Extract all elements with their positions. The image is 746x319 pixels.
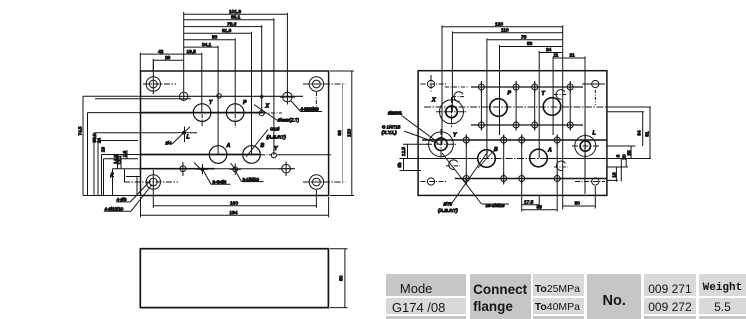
dim 29 — [153, 55, 183, 61]
table cell To40MPa — [533, 298, 584, 315]
svg-text:30: 30 — [575, 201, 581, 207]
svg-text:13: 13 — [611, 172, 616, 178]
svg-text:24: 24 — [546, 47, 552, 53]
svg-text:160: 160 — [230, 200, 238, 206]
M10 valve hole top-left — [180, 92, 188, 100]
dim 18.5 — [184, 49, 202, 55]
port A left view — [209, 146, 227, 164]
small node point top — [261, 96, 263, 98]
label Omax ZT — [254, 105, 300, 123]
M8 row1 — [476, 82, 576, 93]
port X left view — [259, 111, 264, 116]
dim v 1.6 — [122, 150, 127, 159]
row ext bottom edge — [83, 195, 141, 197]
row ext 140.5 — [98, 140, 138, 142]
row line r3 — [422, 140, 635, 146]
bottom dim 160 — [153, 200, 316, 206]
dim 24 r — [539, 47, 563, 53]
svg-text:12.7: 12.7 — [117, 155, 122, 164]
extension col A r — [538, 51, 540, 158]
svg-text:Y: Y — [453, 133, 457, 139]
gauge point L — [172, 114, 235, 144]
row line r2 — [471, 124, 583, 126]
table cell bottom strip c3 — [533, 316, 584, 319]
svg-text:(A.B.P.T): (A.B.P.T) — [438, 208, 458, 214]
svg-text:A: A — [547, 148, 552, 154]
table cell bottom strip c5 — [644, 316, 696, 319]
table cell 009 271 — [644, 274, 696, 295]
table cell 5.5 — [699, 298, 746, 315]
svg-text:50: 50 — [212, 35, 218, 41]
dim v 34.5 — [104, 159, 115, 196]
dim v 40.5 — [101, 155, 103, 196]
svg-text:T: T — [209, 100, 213, 106]
extension col Y r — [441, 25, 443, 144]
svg-text:G1Ø: G1Ø — [270, 127, 280, 132]
side view thickness dim 50 — [330, 249, 348, 308]
corner hole top-left right view — [421, 75, 447, 93]
right dim 96 — [337, 84, 343, 182]
bolt hole bottom-left — [124, 170, 178, 208]
label 4-O9 — [116, 181, 150, 202]
table cell bottom strip c1 — [386, 316, 467, 319]
dim v13 r — [611, 167, 616, 182]
svg-text:Ø4: Ø4 — [166, 141, 173, 146]
label O26 counterbore — [388, 111, 438, 143]
bottom dim 30 r — [563, 186, 596, 209]
bolt hole top-left — [143, 61, 176, 95]
port T right view — [543, 98, 561, 116]
svg-text:12.5: 12.5 — [401, 147, 406, 156]
dim 88.1 — [184, 15, 274, 21]
svg-text:Ø75: Ø75 — [444, 202, 453, 207]
table cell To25MPa — [533, 274, 584, 295]
svg-text:78: 78 — [521, 34, 527, 40]
table cell No. — [587, 274, 641, 319]
bottom dim 17.5 r — [522, 196, 540, 212]
dim 66.5 — [184, 28, 252, 34]
row line r1 — [445, 86, 583, 88]
thread hole near X — [452, 92, 465, 102]
bottom dim 184 — [141, 197, 329, 217]
svg-text:24: 24 — [96, 138, 101, 144]
svg-text:11: 11 — [554, 53, 559, 59]
svg-text:T: T — [542, 91, 546, 97]
port A right view — [530, 149, 548, 167]
dim v 7 — [126, 177, 141, 196]
svg-text:L: L — [593, 131, 596, 137]
dim 78 r — [487, 34, 563, 40]
dim v 12.7 — [117, 155, 122, 169]
extension col plate edge — [139, 53, 141, 71]
svg-text:Ømax(Z.T): Ømax(Z.T) — [278, 118, 300, 123]
svg-text:9b: 9b — [397, 162, 402, 168]
svg-text:2-1/8l19: 2-1/8l19 — [243, 177, 260, 182]
pilot port Y right view — [426, 129, 457, 160]
svg-text:29: 29 — [165, 55, 171, 61]
table cell 009 272 — [644, 298, 696, 315]
port letters left view — [187, 100, 279, 152]
svg-text:18.5: 18.5 — [187, 49, 197, 55]
table cell Weight — [699, 274, 746, 295]
port T left view — [193, 104, 211, 122]
M8 row2 — [476, 120, 576, 131]
row line top holes — [83, 96, 303, 99]
port letters right view — [431, 91, 596, 154]
bottom dim 35 r — [522, 184, 558, 212]
row line L — [94, 132, 197, 134]
right dim chain right view — [607, 107, 650, 182]
dim 42 — [140, 49, 183, 55]
table cell Mode header — [386, 274, 467, 295]
svg-text:4-Ø9: 4-Ø9 — [117, 197, 128, 202]
port P right view — [490, 99, 508, 117]
hole column centerlines rows12 — [481, 81, 570, 131]
svg-text:4-M10l18: 4-M10l18 — [301, 106, 320, 111]
extension col B r — [486, 38, 488, 158]
svg-text:2-G4l8: 2-G4l8 — [213, 180, 227, 185]
extension col T r — [552, 57, 554, 136]
port Y left view — [271, 153, 276, 158]
right dim 120 — [330, 71, 354, 196]
pilot port L right view — [572, 133, 599, 159]
extension col datum — [183, 12, 185, 100]
dim v8 r — [616, 154, 622, 181]
svg-text:51: 51 — [645, 131, 650, 137]
svg-text:74.5: 74.5 — [78, 126, 83, 135]
svg-text:X: X — [431, 98, 436, 104]
dim v 61.6 — [94, 133, 101, 196]
row line r4 — [455, 179, 618, 181]
extension col B — [251, 32, 253, 155]
svg-text:B: B — [494, 147, 498, 153]
top dim chain left view — [140, 9, 287, 156]
table cell Connect flange — [470, 274, 531, 319]
svg-text:17.5: 17.5 — [524, 199, 534, 205]
svg-text:61.9: 61.9 — [222, 28, 232, 34]
extension col datum r — [562, 25, 564, 209]
extension col P — [234, 38, 236, 112]
svg-text:(X.Y.L): (X.Y.L) — [382, 130, 397, 136]
label O25 ABPT bottom — [438, 152, 488, 215]
M10 valve hole bottom-right — [279, 162, 293, 177]
svg-text:Y: Y — [274, 146, 278, 152]
svg-text:L: L — [187, 134, 190, 140]
extension col X — [261, 25, 263, 113]
plate outline right view — [418, 71, 607, 196]
row ext thread row — [607, 166, 628, 168]
row line A B — [102, 154, 332, 156]
small pin hole top — [217, 94, 222, 99]
svg-text:120: 120 — [495, 21, 503, 27]
extension col Y — [273, 18, 275, 155]
dim 120 r — [442, 21, 563, 27]
svg-text:8: 8 — [616, 154, 621, 157]
M10 valve hole top-right — [280, 90, 295, 105]
extension col T — [201, 53, 203, 113]
svg-text:(A.B.P.T): (A.B.P.T) — [267, 134, 287, 139]
svg-text:76.6: 76.6 — [227, 21, 237, 27]
label 10-M8 depth19 — [442, 153, 509, 208]
extension col bolt left — [152, 59, 154, 71]
extension col A — [217, 46, 219, 155]
bolt hole top-right — [303, 77, 346, 110]
dim v 12.7b — [124, 169, 126, 182]
dim v34 r — [607, 112, 644, 146]
left small dim right view — [397, 144, 478, 170]
label 4-O15/20 — [104, 185, 152, 212]
dim v 81.4 — [88, 113, 98, 196]
hole column centerlines rows34 — [466, 135, 557, 196]
side view plate rectangle — [140, 249, 328, 308]
top dim chain right view — [442, 21, 585, 209]
svg-text:34: 34 — [637, 130, 642, 136]
corner hole top-right right view — [582, 80, 605, 105]
label G1/4 XYL — [382, 124, 439, 143]
dim v 97.4 — [78, 96, 84, 195]
extension col P r — [499, 45, 501, 135]
thread hole near T — [554, 90, 567, 100]
port B right view — [478, 147, 497, 168]
table cell G174/08 — [386, 298, 467, 315]
extension col X r — [451, 31, 453, 112]
label 4-M10 depth18 — [291, 101, 322, 112]
label G1/8 ABPT — [246, 127, 286, 158]
dim v 14.3 — [113, 155, 118, 169]
dim 63 r — [500, 41, 563, 47]
svg-text:101.6: 101.6 — [229, 9, 241, 15]
svg-text:1.6: 1.6 — [122, 150, 127, 157]
svg-text:42: 42 — [158, 49, 164, 55]
dim 50 — [184, 35, 236, 41]
svg-text:10-1/8l19: 10-1/8l19 — [486, 203, 506, 208]
small pin hole bottom 1 — [194, 163, 208, 175]
dim v 26.5 — [112, 169, 114, 196]
corner hole bottom-right right view — [575, 178, 605, 185]
M10 valve hole bottom-left — [177, 162, 190, 176]
extension col L r — [584, 57, 586, 195]
svg-text:120: 120 — [347, 129, 353, 137]
row ext 160.5 — [104, 158, 139, 160]
dim 101.6 — [184, 9, 288, 15]
svg-text:29: 29 — [100, 147, 105, 153]
label 2-M8/19 — [236, 171, 264, 182]
dim v 54.6 — [98, 141, 105, 196]
svg-text:X: X — [265, 104, 270, 110]
row line PT centerline — [424, 106, 651, 108]
svg-text:53: 53 — [527, 41, 533, 47]
svg-text:4-Ø15/20: 4-Ø15/20 — [105, 206, 124, 211]
left dim chain left view — [78, 96, 141, 195]
label 2-G4/8 — [203, 170, 231, 185]
row line AB centerline — [425, 158, 651, 160]
svg-text:34.1: 34.1 — [202, 42, 212, 48]
svg-text:B: B — [261, 143, 265, 149]
dim v20 r — [622, 154, 627, 167]
plate outline left view — [141, 71, 329, 196]
dim 11 r — [553, 53, 563, 59]
svg-text:P: P — [508, 91, 512, 97]
svg-text:110: 110 — [501, 27, 509, 33]
corner hole bottom-left right view — [421, 178, 447, 185]
small pin hole bottom 2 — [230, 163, 242, 175]
M8 row3 — [461, 135, 563, 146]
dim 34.1 — [184, 42, 218, 48]
pilot port X right view — [436, 97, 467, 127]
dim 76.6 — [184, 21, 262, 27]
dim v25 r — [626, 146, 631, 159]
row line P T — [88, 112, 283, 114]
M8 row4 — [461, 173, 563, 184]
svg-text:50: 50 — [339, 275, 345, 281]
dim v51 r — [645, 107, 650, 159]
table cell bottom strip c6 — [699, 316, 746, 319]
label O4 — [166, 141, 173, 146]
port B left view — [243, 146, 261, 164]
dim 110 r — [452, 27, 562, 33]
row line bottom holes — [113, 168, 296, 170]
svg-text:Ø26H1: Ø26H1 — [388, 111, 402, 116]
svg-text:184: 184 — [230, 210, 238, 216]
svg-text:25: 25 — [626, 150, 631, 156]
svg-text:88.1: 88.1 — [231, 15, 241, 21]
bolt hole bottom-right — [303, 175, 346, 208]
svg-text:G 1/4T15: G 1/4T15 — [382, 124, 401, 129]
svg-text:35: 35 — [537, 205, 543, 211]
port P left view — [226, 104, 244, 122]
svg-text:21: 21 — [570, 53, 576, 59]
thread hole lower-right — [554, 161, 568, 171]
thread hole lower-left — [446, 160, 460, 170]
svg-text:P: P — [243, 100, 247, 106]
extension col M10 right — [286, 13, 288, 97]
svg-text:A: A — [226, 143, 231, 149]
dim 21 r — [563, 53, 585, 59]
svg-text:86: 86 — [337, 130, 343, 136]
